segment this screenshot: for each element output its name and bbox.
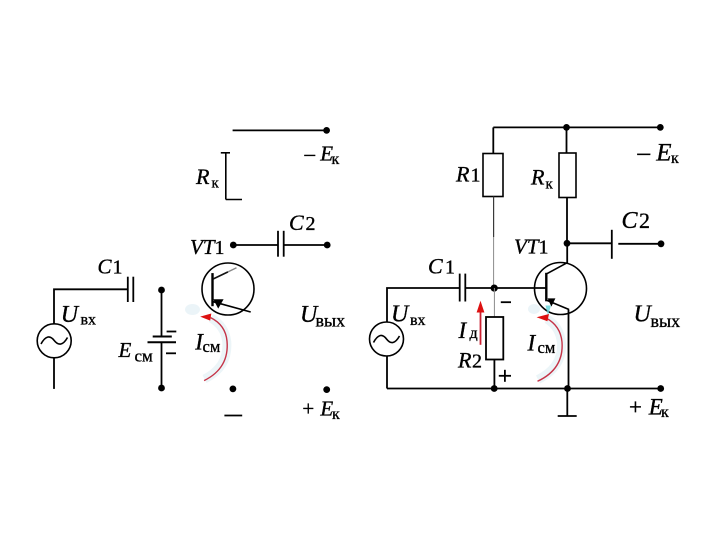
svg-text:– E: – E — [304, 141, 334, 165]
node: left +Ek terminal dot — [323, 386, 330, 393]
wire: Rk to collector node — [566, 198, 568, 244]
node: battery bottom dot — [158, 385, 165, 392]
wire: below left source — [53, 358, 55, 389]
svg-text:к: к — [332, 406, 340, 423]
wire: R2 to bottom rail — [493, 360, 495, 389]
node: left collector junction dot — [230, 242, 237, 249]
svg-text:к: к — [661, 404, 669, 421]
svg-text:вых: вых — [316, 311, 346, 331]
svg-text:R: R — [457, 348, 472, 373]
label: C2 (left) — [289, 210, 316, 235]
svg-text:R: R — [455, 161, 470, 186]
svg-text:2: 2 — [639, 208, 650, 233]
label: VT1 (right) — [514, 235, 549, 259]
label: left -Ek — [304, 141, 340, 168]
wire: C2 to output dot — [618, 243, 661, 245]
emitter stroke — [547, 300, 569, 309]
svg-text:2: 2 — [472, 351, 482, 373]
wire: left top supply wire — [233, 129, 327, 131]
svg-text:1: 1 — [113, 257, 123, 279]
current arrow Id (red, up) — [477, 301, 485, 345]
node: left output dot — [324, 242, 331, 249]
svg-text:1: 1 — [445, 256, 455, 278]
label: R2 — [457, 348, 482, 373]
collector stroke (fading) — [213, 272, 228, 279]
svg-text:к: к — [671, 150, 679, 167]
svg-text:к: к — [546, 177, 554, 193]
svg-text:1: 1 — [215, 237, 225, 259]
artifact: cyan mark under arrowhead — [546, 306, 552, 316]
svg-text:см: см — [538, 338, 556, 357]
svg-text:+ E: + E — [628, 395, 663, 420]
wire: collector up to node — [566, 243, 568, 263]
wire: emitter down to bottom rail — [568, 310, 570, 389]
node: base node dot — [491, 285, 498, 292]
capacitor C2 (left) — [278, 231, 284, 257]
svg-text:2: 2 — [306, 213, 316, 235]
label: left +Ek — [301, 396, 340, 423]
wire: right source to C1 — [387, 288, 460, 322]
source Uvx (right AC source) — [370, 322, 404, 356]
svg-text:VT: VT — [190, 235, 216, 259]
label: right +Ek — [628, 395, 670, 422]
svg-text:U: U — [391, 301, 410, 327]
emitter arrowhead (PNP) — [548, 298, 556, 306]
wire: node down to R2 (thin gray) — [493, 288, 495, 317]
wire: collector node to C2 — [567, 242, 612, 244]
label: Rk (left) — [195, 164, 220, 192]
node: collector junction dot — [564, 240, 571, 247]
label: Esm — [118, 338, 154, 365]
svg-text:к: к — [332, 151, 340, 168]
svg-text:C: C — [289, 210, 304, 235]
capacitor C1 (left) — [128, 277, 134, 302]
capacitor C2 (right, single plate drawn) — [611, 230, 613, 259]
svg-text:C: C — [622, 208, 639, 234]
label: Uvx (left) — [61, 302, 96, 329]
wire: battery bottom lead — [161, 342, 163, 388]
collector stroke — [547, 263, 568, 274]
svg-text:VT: VT — [514, 235, 540, 259]
svg-text:C: C — [98, 255, 113, 279]
wire: dot to C2 left plate — [236, 244, 278, 246]
current arrow Ism (left, red arc) — [185, 304, 227, 381]
wire: C1 to base node — [465, 287, 494, 289]
svg-text:см: см — [135, 347, 154, 366]
node: left -Ek terminal dot — [323, 127, 330, 134]
label: Rk (right) — [530, 165, 554, 193]
svg-text:C: C — [428, 253, 443, 278]
label: Uvx (right) — [391, 301, 426, 329]
svg-text:R: R — [195, 164, 210, 189]
wire: C2 right plate to output dot — [284, 244, 328, 246]
node: left emitter bottom dot — [230, 386, 237, 393]
resistor Rk (left, partially drawn: left edge and bottom edge) — [221, 153, 242, 200]
wire: base node to transistor base — [494, 287, 546, 289]
svg-text:I: I — [458, 318, 468, 343]
svg-text:см: см — [203, 337, 221, 356]
resistor R2 — [486, 317, 503, 360]
svg-text:E: E — [118, 338, 132, 362]
wire: right top supply wire — [493, 126, 660, 128]
node: emitter bottom junction dot — [564, 385, 571, 392]
svg-text:д: д — [470, 325, 478, 342]
label: Uvyh (right) — [634, 301, 681, 331]
node: right output dot — [658, 240, 665, 247]
svg-text:I: I — [527, 330, 537, 355]
wire: top wire to R1 — [492, 127, 494, 153]
svg-text:вх: вх — [81, 311, 97, 328]
wire: bottom rail — [387, 388, 661, 390]
body circle — [535, 263, 587, 315]
capacitor C1 (right) — [460, 274, 466, 302]
label: plus at R2 bottom — [499, 370, 511, 382]
emitter arrowhead (PNP, pointing to base) — [213, 299, 223, 308]
label: Id — [458, 318, 478, 343]
wire: source to C1 — [54, 289, 128, 324]
node: R2 bottom junction dot — [491, 385, 498, 392]
node: top junction dot — [563, 124, 570, 131]
svg-text:к: к — [212, 176, 220, 192]
svg-text:+ E: + E — [301, 396, 333, 420]
wire: top wire to Rk — [566, 127, 568, 153]
base bar — [545, 273, 547, 302]
emitter stroke — [213, 302, 251, 312]
label: Ism (right) — [527, 330, 556, 357]
svg-text:R: R — [530, 165, 545, 190]
svg-text:1: 1 — [539, 237, 549, 259]
current arrow Ism (right, red arc) — [528, 304, 562, 381]
ground (left, partial bar) — [224, 415, 242, 417]
label: minus at R2 top — [501, 301, 511, 303]
node: battery top dot — [158, 287, 165, 294]
node: right -Ek terminal dot — [657, 124, 664, 131]
label: C1 (left) — [98, 255, 123, 279]
label: C1 (right) — [428, 253, 455, 278]
resistor R1 — [483, 154, 503, 197]
body circle — [202, 263, 254, 315]
svg-text:вх: вх — [410, 312, 426, 329]
ground symbol — [558, 389, 577, 417]
battery Esm — [148, 332, 177, 354]
resistor Rk (right) — [559, 153, 576, 198]
source Uvx (left AC source) — [37, 324, 71, 358]
label: VT1 (left) — [190, 235, 225, 259]
label: Ism (left) — [194, 329, 221, 356]
svg-text:U: U — [61, 302, 80, 328]
wire: below right source — [386, 356, 388, 389]
transistor VT1 (right, PNP) — [535, 243, 587, 315]
svg-text:– E: – E — [637, 140, 672, 167]
transistor VT1 (left, PNP) — [202, 263, 254, 315]
wire: R1 to base node (thin gray) — [493, 197, 495, 238]
svg-text:вых: вых — [651, 311, 681, 331]
wire: battery top lead — [161, 290, 163, 337]
label: C2 (right) — [622, 208, 651, 234]
label: R1 — [455, 161, 481, 186]
svg-text:1: 1 — [471, 164, 481, 186]
label: right -Ek — [637, 140, 680, 168]
label: Uvyh (left) — [300, 302, 345, 331]
node: right +Ek terminal dot — [657, 385, 664, 392]
base bar — [211, 273, 213, 306]
